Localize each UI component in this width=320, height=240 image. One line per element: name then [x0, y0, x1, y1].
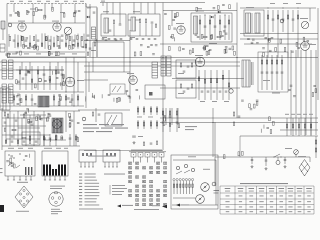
part: [77, 96, 79, 100]
part: [37, 46, 39, 50]
part: [155, 45, 158, 46]
contact: [136, 167, 137, 169]
part: [52, 71, 54, 75]
part: [63, 74, 65, 78]
contact: [150, 203, 151, 205]
black comb: [43, 165, 45, 176]
pins: [44, 176, 46, 180]
part: [172, 34, 174, 38]
coil element: [189, 181, 191, 194]
labels: [200, 101, 205, 102]
part: [264, 37, 267, 38]
terminal labels top: [10, 0, 14, 3]
legend rows: [79, 173, 82, 176]
coil element: [176, 181, 178, 194]
bus: [280, 129, 318, 131]
part: [5, 54, 8, 55]
part: [59, 99, 62, 100]
resistor: [143, 106, 145, 115]
IF coil: [152, 62, 158, 78]
part column: [210, 70, 212, 100]
tube V3 EF89: [177, 26, 185, 34]
part: [209, 50, 212, 51]
part: [293, 96, 296, 97]
detector box mid: [110, 84, 125, 94]
part: [177, 12, 179, 16]
part: [76, 136, 78, 140]
cap to ground: [251, 157, 253, 164]
contact: [164, 171, 165, 173]
part column: [216, 70, 218, 100]
part column: [266, 55, 268, 90]
part: [232, 46, 234, 50]
part: [174, 17, 177, 18]
cap to ground: [284, 157, 286, 164]
part column: [65, 34, 67, 48]
part: [34, 45, 36, 49]
bus right: [240, 38, 318, 40]
part: [225, 49, 227, 53]
part: [94, 95, 96, 99]
contact: [143, 190, 144, 192]
part: [58, 52, 60, 56]
ratio det boxes: [176, 60, 196, 78]
part: [56, 78, 59, 79]
cap C12: [87, 35, 90, 36]
output transformer: [242, 60, 250, 87]
part: [58, 47, 61, 48]
main HT bus: [7, 57, 318, 59]
part: [85, 96, 87, 100]
part: [251, 42, 254, 43]
part: [127, 95, 130, 96]
part: [91, 93, 93, 97]
part: [126, 91, 129, 92]
resistor: [137, 106, 139, 115]
part: [242, 151, 244, 155]
part: [28, 119, 30, 123]
part column: [74, 35, 76, 47]
wire: [309, 157, 311, 162]
part column: [199, 15, 201, 40]
parts above formula: [92, 112, 94, 116]
switch: [274, 154, 280, 157]
part: [49, 134, 51, 146]
part: [78, 11, 81, 12]
part: [29, 154, 31, 158]
part: [24, 112, 27, 113]
part: [61, 138, 64, 139]
parts: [143, 142, 145, 145]
coupling stage: [89, 4, 91, 57]
contact: [129, 171, 130, 173]
contact: [129, 190, 130, 192]
part: [297, 48, 300, 49]
labels above boxes: [8, 148, 14, 149]
part: [221, 35, 224, 36]
bars: [25, 167, 26, 175]
wire: [78, 109, 130, 111]
cap: [119, 24, 122, 25]
tube V1 EC92: [18, 23, 26, 31]
part: [228, 20, 230, 24]
part column: [13, 114, 15, 139]
part column: [59, 36, 61, 48]
dots: [204, 14, 205, 15]
resistor: [156, 120, 158, 129]
part column: [272, 10, 274, 32]
dots: [267, 7, 268, 8]
part: [134, 52, 136, 56]
contact: [164, 203, 165, 205]
part: [315, 89, 317, 93]
table title: [240, 183, 288, 184]
part: [220, 31, 222, 35]
part: [224, 49, 226, 53]
wire: [310, 50, 312, 135]
part: [17, 140, 19, 143]
contact: [136, 190, 137, 192]
part: [163, 116, 166, 117]
part: [9, 15, 12, 16]
part: [125, 91, 127, 95]
part: [48, 52, 50, 56]
electrolytic can: [52, 119, 61, 128]
wire: [315, 50, 317, 135]
keyboard unit box: [42, 151, 68, 176]
part: [241, 100, 244, 101]
part: [5, 140, 7, 143]
resistor R9: [94, 42, 96, 46]
coil L5: [92, 27, 96, 39]
part: [72, 45, 75, 46]
labels: [185, 126, 197, 127]
contact: [143, 167, 144, 169]
part: [313, 86, 316, 87]
part: [204, 46, 206, 50]
part: [204, 26, 207, 27]
switch squares: [131, 153, 136, 158]
part: [31, 46, 34, 47]
part: [73, 12, 76, 13]
left edge vertical: [1, 108, 3, 150]
part: [152, 54, 155, 55]
Ader label: [88, 156, 116, 157]
resistor: [310, 118, 312, 136]
part: [209, 20, 211, 24]
part: [284, 48, 286, 52]
part column: [228, 15, 230, 40]
contact: [143, 199, 144, 201]
part: [34, 104, 37, 105]
pulley: [196, 195, 205, 204]
part: [73, 40, 76, 41]
part: [17, 43, 19, 46]
part: [57, 72, 60, 73]
AM IF coils: [161, 56, 166, 76]
part: [57, 37, 59, 41]
part: [34, 84, 36, 88]
part column: [204, 70, 206, 100]
part: [189, 50, 191, 54]
resistor: [292, 118, 294, 136]
part: [9, 37, 11, 41]
part: [63, 13, 65, 17]
part: [36, 117, 38, 121]
part: [306, 41, 309, 42]
contact: [157, 167, 158, 169]
part: [250, 109, 253, 110]
contact: [143, 176, 144, 178]
part: [263, 125, 265, 129]
part: [169, 116, 172, 117]
wire: [239, 136, 241, 157]
part: [61, 40, 64, 41]
wire: [240, 7, 316, 9]
page mark: [0, 205, 4, 212]
arrow Abgleich: [117, 205, 121, 208]
part: [77, 43, 79, 46]
inner label: [30, 9, 36, 10]
IF transformer Fi1: [101, 14, 126, 36]
part column: [219, 15, 221, 40]
tube V2 EC92: [53, 23, 61, 31]
bus right: [244, 43, 312, 45]
cap: [225, 91, 228, 92]
part column: [50, 36, 52, 50]
mains transformer: [52, 118, 63, 133]
connector socket B: [49, 192, 63, 206]
part: [164, 14, 167, 15]
part: [120, 98, 122, 102]
part column: [8, 34, 10, 47]
part: [109, 30, 112, 31]
vertical: [214, 122, 216, 186]
part: [52, 7, 54, 11]
part column: [29, 35, 31, 49]
part: [25, 156, 28, 157]
cap: [105, 39, 108, 40]
part: [46, 37, 48, 41]
long vertical bus: [236, 3, 238, 119]
contact: [143, 203, 144, 205]
part column: [49, 66, 51, 90]
part: [113, 98, 115, 102]
part: [25, 74, 28, 75]
part: [234, 51, 236, 55]
IF amp box: [128, 14, 160, 36]
part: [269, 117, 271, 121]
part: [25, 46, 28, 47]
part: [28, 121, 32, 123]
pot: [276, 161, 280, 165]
part: [44, 80, 47, 81]
cap: [44, 16, 47, 17]
part column: [261, 55, 263, 90]
wire: [13, 4, 15, 13]
output stage parts: [258, 52, 288, 92]
part: [43, 74, 46, 75]
part: [8, 54, 11, 55]
part: [229, 48, 232, 49]
part column: [297, 10, 299, 32]
part: [140, 45, 143, 46]
part: [65, 43, 67, 46]
contact: [150, 190, 151, 192]
switch row header: [131, 150, 162, 151]
part column: [77, 94, 79, 106]
part column: [31, 66, 33, 90]
driver transformer hatch: [38, 96, 49, 107]
part: [46, 118, 48, 122]
part: [27, 47, 30, 48]
parts near window: [85, 44, 87, 48]
caps row under IF boxes: [102, 38, 105, 39]
part: [213, 8, 216, 9]
part: [275, 47, 277, 51]
feed stubs: [106, 3, 108, 15]
part: [269, 38, 271, 42]
part: [214, 26, 217, 27]
cap: [115, 39, 118, 40]
tube V4 EABC80: [65, 77, 75, 87]
resistor: [137, 120, 139, 129]
part: [14, 164, 16, 168]
wires: [173, 197, 196, 199]
antenna terminal: [1, 21, 5, 29]
wire: [171, 11, 173, 27]
grid bus: [8, 51, 85, 53]
idler: [212, 182, 216, 186]
wire: [16, 69, 64, 71]
part: [40, 119, 43, 120]
part: [49, 76, 51, 80]
long vertical: [129, 30, 131, 103]
part column: [35, 34, 37, 48]
wire: [84, 150, 163, 152]
part: [170, 37, 173, 38]
HF chassis box: [5, 151, 35, 176]
contact: [164, 194, 165, 196]
part: [85, 98, 87, 102]
part: [29, 140, 31, 143]
part: [101, 94, 103, 98]
psu parts 2: [7, 114, 9, 118]
part: [223, 31, 226, 32]
part: [41, 43, 43, 46]
part: [25, 38, 28, 39]
bus: [84, 65, 240, 67]
part: [256, 43, 259, 44]
part: [15, 12, 18, 13]
part: [49, 46, 51, 50]
socket view EL84: [299, 160, 310, 177]
indicator circle: [229, 89, 233, 93]
part: [222, 5, 225, 6]
part: [247, 39, 250, 40]
part: [58, 95, 61, 96]
resistor: [113, 20, 115, 24]
part: [81, 37, 83, 41]
small circle: [280, 19, 284, 23]
part: [19, 99, 22, 100]
resistor: [298, 118, 300, 136]
part: [219, 20, 221, 24]
part: [69, 134, 71, 146]
part: [108, 95, 111, 96]
part column: [55, 66, 57, 90]
wires under V4: [65, 58, 67, 93]
part: [61, 136, 63, 140]
part: [55, 135, 57, 139]
part: [63, 75, 65, 79]
part: [27, 11, 30, 12]
wire row: [84, 40, 130, 42]
diode D1: [87, 16, 89, 18]
part: [77, 138, 79, 142]
part: [25, 96, 27, 100]
bus: [240, 135, 318, 137]
contact: [129, 194, 130, 196]
part: [224, 26, 227, 27]
part column: [176, 108, 178, 132]
part: [116, 98, 118, 102]
inner top wire: [173, 159, 216, 161]
parts in boxes: [180, 63, 182, 67]
part column: [37, 114, 39, 144]
psu wires grid: [2, 117, 50, 119]
part: [55, 134, 57, 146]
part: [74, 13, 76, 17]
part: [129, 97, 132, 98]
part: [49, 115, 52, 116]
cap: [86, 39, 89, 40]
part column: [71, 36, 73, 50]
part: [65, 96, 67, 100]
bus: [172, 78, 244, 80]
long vertical bus: [162, 3, 164, 151]
part: [74, 11, 77, 12]
part column: [222, 70, 224, 100]
part: [218, 5, 220, 9]
resistor: [143, 120, 145, 129]
part column: [31, 94, 33, 106]
part: [172, 19, 175, 20]
wire: [163, 10, 237, 12]
part column: [53, 37, 55, 48]
part: [256, 100, 259, 101]
part: [60, 96, 62, 100]
coil element: [192, 181, 194, 194]
part: [25, 40, 28, 41]
part column: [21, 118, 23, 139]
field coil box: [0, 88, 10, 110]
contact: [136, 199, 137, 201]
part: [18, 13, 20, 17]
part: [47, 113, 49, 117]
resistor: [150, 120, 152, 129]
contact: [164, 162, 165, 164]
tube V5 ECH81: [129, 76, 138, 85]
contact: [164, 185, 165, 187]
diode D3: [218, 11, 220, 13]
socket B caption: [51, 209, 60, 210]
connector socket B label: [50, 186, 65, 187]
part column: [59, 94, 61, 106]
part: [37, 40, 40, 41]
bus: [0, 61, 240, 63]
part: [17, 104, 20, 105]
